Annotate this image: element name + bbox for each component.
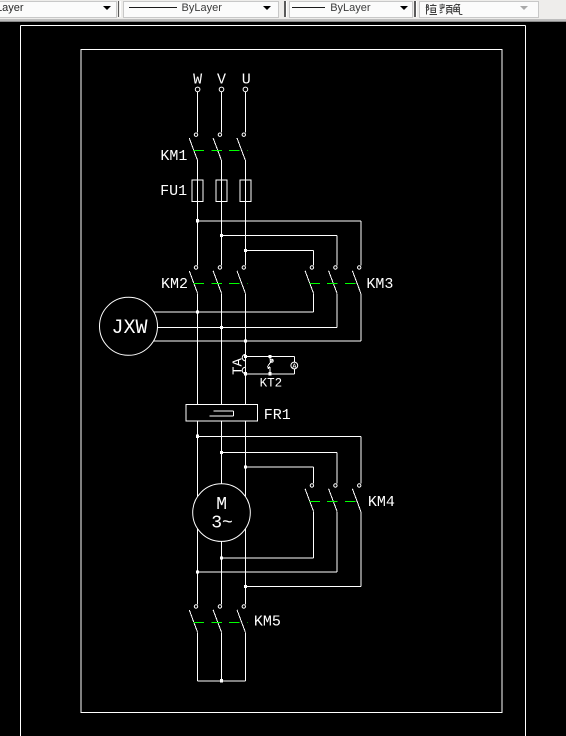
combo: plot style (disabled) [419,1,539,18]
timer contact KT2 [267,357,273,374]
contactor KM3 pole 1 [305,266,313,294]
KM4 linkage (dashed green) [309,501,363,503]
wire phase V from terminal to KM1 [221,92,223,133]
fuse FU1 element 1 [192,180,203,201]
svg-text:KT2: KT2 [260,376,283,390]
wire ammeter leg [293,357,295,374]
svg-text:KM3: KM3 [366,276,393,293]
node TA bottom tap [244,372,247,375]
separator [284,1,286,17]
current transformer TA (arcs on phase U) [242,354,245,373]
contactor KM1 pole 3 [237,133,246,161]
svg-text:3~: 3~ [211,514,233,534]
speed relay JXW [100,297,158,355]
wire phase U KM2 to FR1/motor [244,293,246,604]
node junction phase U / KM3 tap [244,249,247,252]
contactor KM4 pole 2 [329,484,337,512]
KM3 linkage (dashed green) [309,283,363,285]
node junction phase W / KM4 tap [196,435,199,438]
wire tap phase U to KM4 [245,467,313,483]
contactor KM3 pole 3 [352,266,361,294]
wire KM5 pole 3 to star point [244,632,246,681]
wire phase W KM2 to FR1/motor [197,293,199,604]
wire phase W from terminal to KM1 [197,92,199,133]
svg-text:V: V [217,71,226,88]
svg-text:M: M [216,495,227,515]
node star point [220,679,223,682]
terminal V [219,87,224,92]
node junction JXW bus 3 / phase U [244,339,247,342]
svg-text:KM4: KM4 [368,494,395,511]
combo: layer control [0,1,117,18]
combo: lineweight ByLayer [289,1,413,18]
wire tap phase W to KM4 [198,436,361,483]
wire KM4 pole 3 return [245,511,360,586]
separator [414,1,416,17]
combo: linetype ByLayer [123,1,280,18]
wire phase V KM2 to FR1/motor [221,293,223,604]
wire KM3 pole 1 return to JXW bus [154,293,314,312]
wire tap phase V to KM4 [222,452,338,483]
wire KM3 pole 3 return to JXW bus [154,293,361,341]
node junction KM4 return / phase W [196,571,199,574]
contactor KM3 pole 2 [329,266,337,294]
wire phase V KM1 to KM2 [221,161,223,266]
contactor KM1 pole 1 [189,133,198,161]
terminal W [195,87,200,92]
motor M 3~ [193,484,251,542]
svg-text:FU1: FU1 [160,183,187,200]
svg-text:KM2: KM2 [161,276,188,293]
node KT2 bottom [269,372,272,375]
wire tap phase V to KM3 [222,236,338,266]
KM5 linkage (dashed green) [193,622,247,624]
separator [118,1,120,17]
wire KM4 pole 2 return [198,511,337,572]
wire tap phase U to KM3 [245,251,313,266]
svg-text:A: A [292,363,297,371]
node junction phase V / KM4 tap [220,451,223,454]
contactor KM4 pole 3 [352,484,361,512]
svg-text:W: W [193,71,202,88]
wire tap phase W to KM3 [198,221,361,265]
svg-text:U: U [242,71,251,88]
wire KM3 pole 2 return to JXW bus [158,293,338,327]
terminal U [243,87,248,92]
ammeter A [291,362,298,371]
label 随颜色 (drawn strokes) [425,3,467,16]
contactor KM5 pole 3 [237,605,246,633]
node junction phase W / KM3 tap [196,219,199,222]
inner drawing frame [81,49,502,712]
wire KM5 pole 2 to star point [221,632,223,681]
wire KT2 branch bottom [245,373,294,375]
contactor KM2 pole 2 [213,266,221,294]
svg-text:FR1: FR1 [264,407,291,424]
label TA (rotated) [231,358,247,375]
node KT2 top [269,355,272,358]
node junction KM4 return / phase U [244,585,247,588]
wire phase U KM1 to KM2 [244,161,246,266]
contactor KM2 pole 3 [237,266,246,294]
node junction phase V / KM3 tap [220,234,223,237]
wire phase U from terminal to KM1 [244,92,246,133]
wire phase W KM1 to KM2 [197,161,199,266]
node junction JXW bus 2 / phase V [220,326,223,329]
contactor KM2 pole 1 [189,266,198,294]
node TA top tap [244,355,247,358]
contactor KM5 pole 2 [213,605,221,633]
wire star point bar [198,680,246,682]
svg-text:KM1: KM1 [160,148,187,165]
wire KM5 pole 1 to star point [197,632,199,681]
thermal relay FR1 [186,404,258,421]
fuse FU1 element 2 [216,180,227,201]
svg-text:JXW: JXW [111,317,147,340]
contactor KM1 pole 2 [213,133,221,161]
node junction JXW bus 1 / phase W [196,310,199,313]
contactor KM5 pole 1 [189,605,198,633]
fuse FU1 element 3 [240,180,251,201]
contactor KM4 pole 1 [305,484,313,512]
KM1 linkage (dashed green) [193,150,247,152]
node junction phase U / KM4 tap [244,466,247,469]
wire KM4 pole 1 return [222,511,314,558]
svg-text:KM5: KM5 [254,614,281,631]
wire KT2 branch top [245,356,294,358]
KM2 linkage (dashed green) [193,283,247,285]
node junction KM4 return / phase V [220,557,223,560]
